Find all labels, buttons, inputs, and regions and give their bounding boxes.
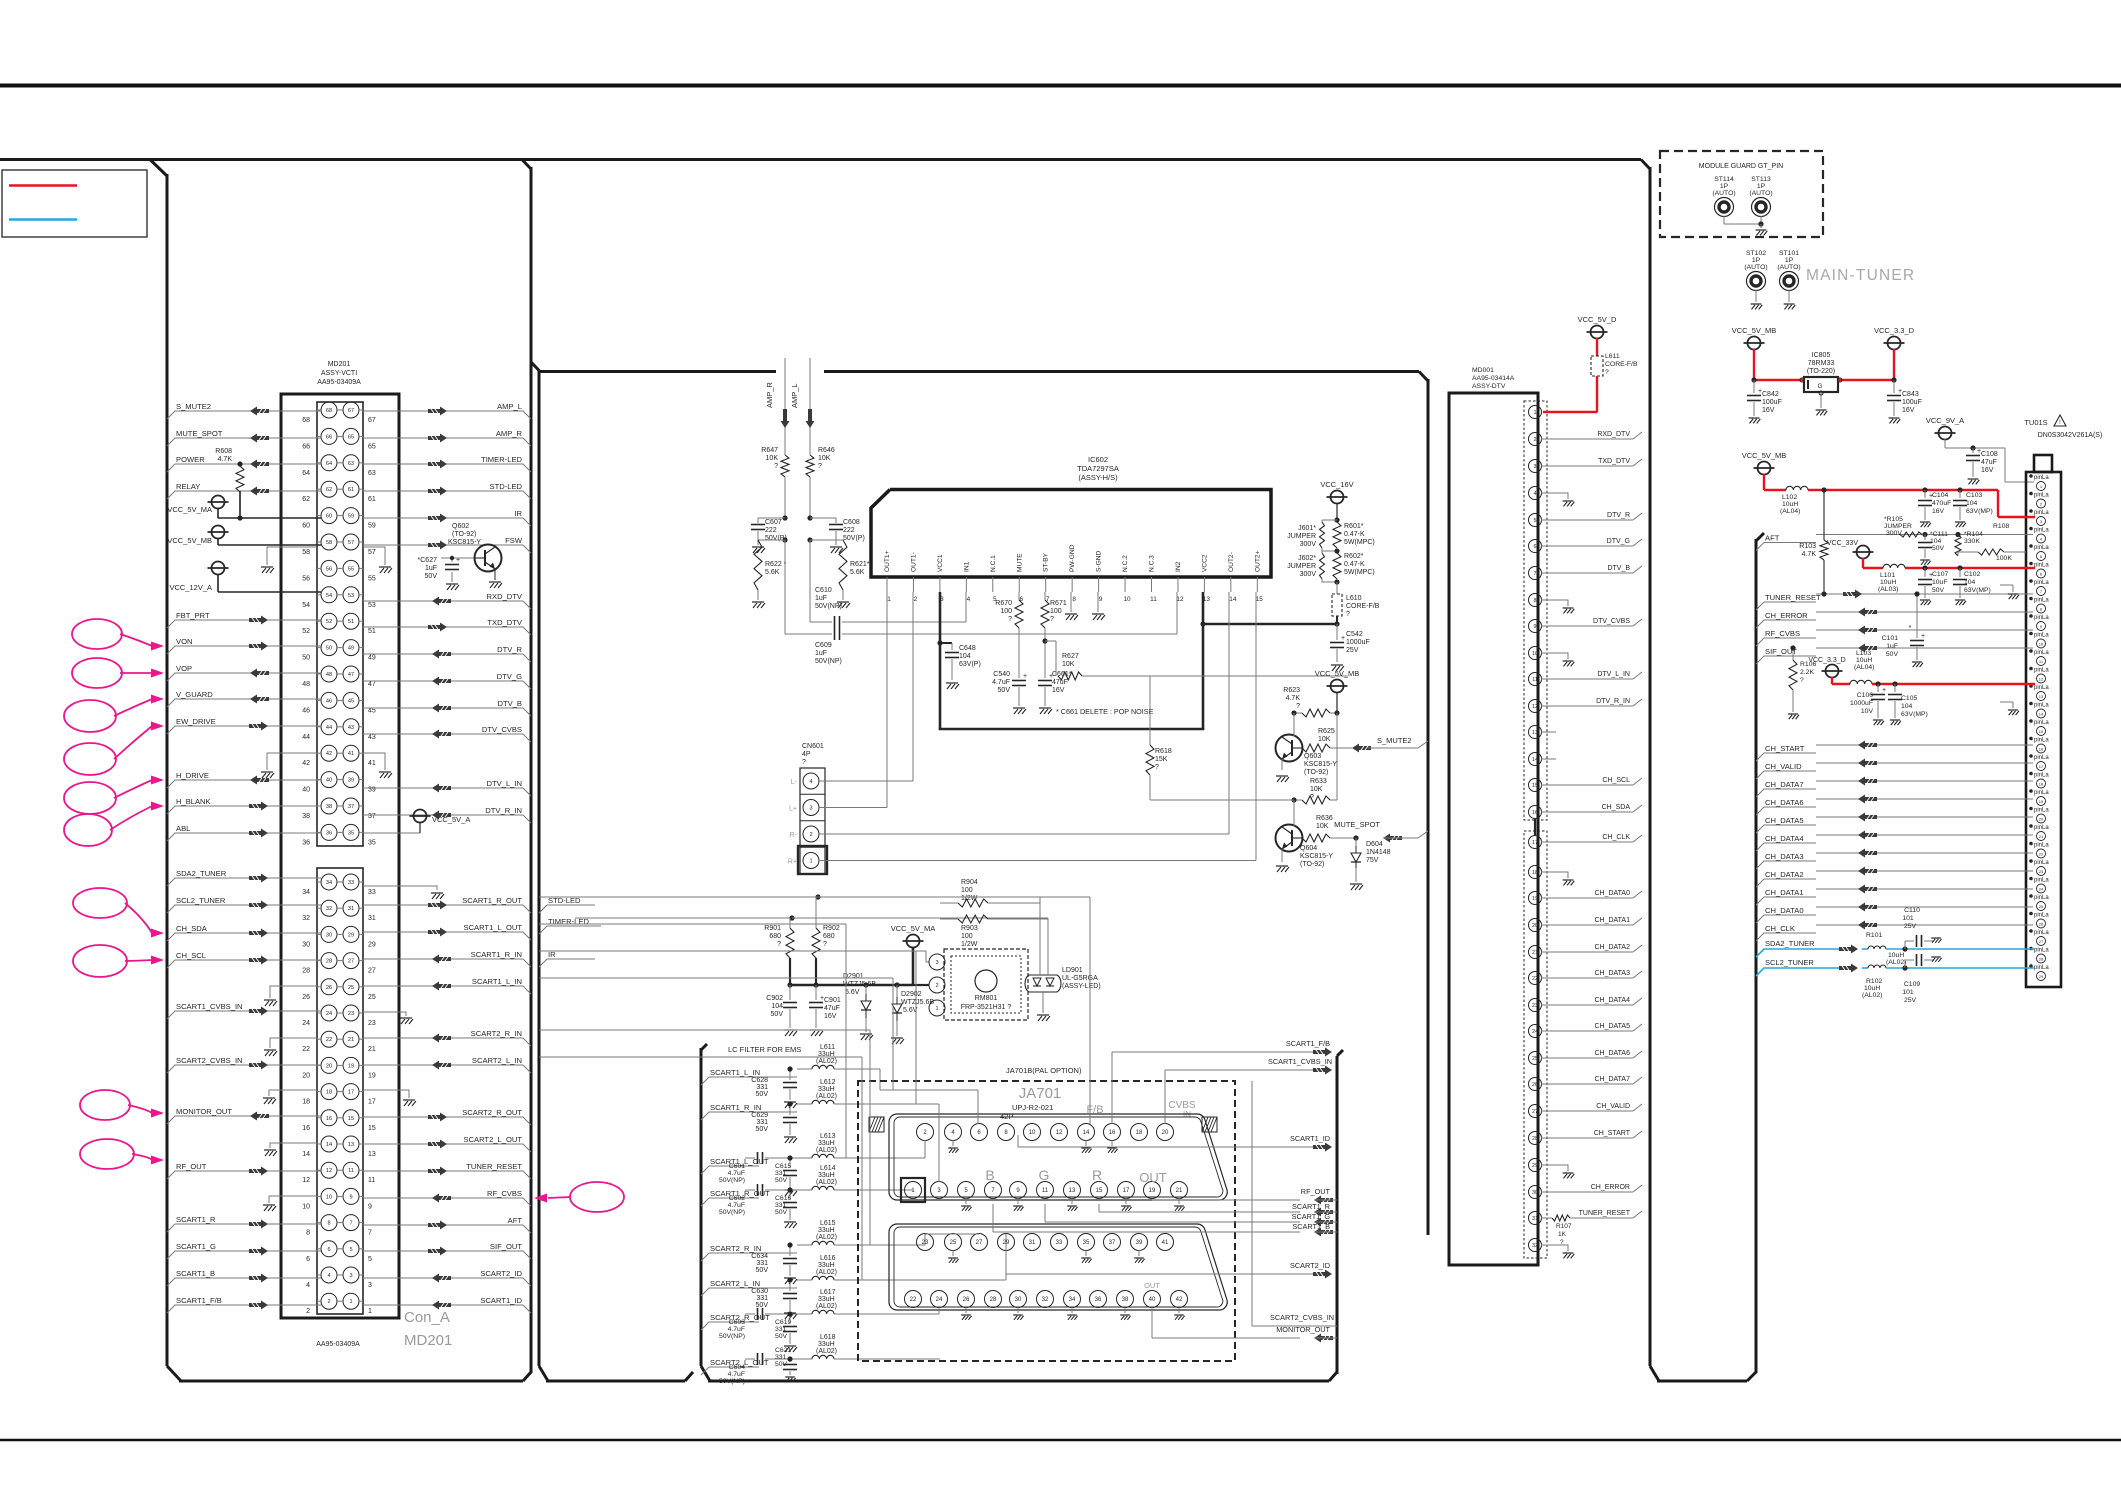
net CH_VALID wire to tuner	[1756, 759, 2033, 780]
JA701 pin 1	[901, 1178, 925, 1202]
net label SCART2_L_IN (MD201 right)	[363, 1056, 531, 1073]
MD201 pins 58/57	[302, 534, 376, 556]
tuner pin 1	[2029, 474, 2049, 490]
MD001 pin 13	[1529, 726, 1557, 739]
tuner pin 17	[2029, 754, 2049, 770]
net label SCART2_CVBS_IN (MD201 left)	[167, 1056, 321, 1073]
svg-text:R902: R902	[823, 925, 840, 932]
svg-text:SCART1_F/B: SCART1_F/B	[176, 1296, 222, 1305]
svg-text:R618: R618	[1155, 748, 1172, 755]
power symbol VCC_5V_D and inductor L611 CORE-F/B (red feed to MD001 pin1)	[1543, 315, 1638, 412]
svg-text:2: 2	[809, 832, 812, 838]
svg-text:VCC_12V_A: VCC_12V_A	[169, 583, 212, 592]
svg-text:OUT1-: OUT1-	[910, 552, 917, 572]
svg-text:DTV_L_IN: DTV_L_IN	[487, 779, 522, 788]
SCART2 connector outline	[889, 1224, 1227, 1310]
svg-text:L611: L611	[1605, 353, 1620, 360]
tuner pin 24	[2029, 877, 2049, 893]
MD201 pins 42/41	[302, 745, 376, 767]
svg-text:4.7K: 4.7K	[218, 456, 233, 463]
svg-text:MUTE: MUTE	[1016, 553, 1023, 572]
right outline vertical (DTV section)	[1641, 160, 1756, 1382]
svg-text:pinLa: pinLa	[2034, 808, 2049, 814]
page bottom border line	[0, 1439, 2121, 1442]
svg-text:VCC_3.3_D: VCC_3.3_D	[1874, 326, 1915, 335]
wire SCART1_B from right	[993, 1204, 1337, 1237]
svg-text:101: 101	[1902, 989, 1914, 996]
svg-text:50V: 50V	[756, 1126, 769, 1133]
svg-text:R602*: R602*	[1344, 553, 1364, 560]
svg-text:(AL02): (AL02)	[816, 1179, 837, 1186]
JA701 pin 6	[971, 1124, 988, 1141]
MD201 pins 2/1	[306, 1293, 372, 1315]
net label SCART1_F/B (MD201 left)	[167, 1296, 321, 1313]
svg-text:MONITOR_OUT: MONITOR_OUT	[176, 1107, 232, 1116]
svg-text:CH_DATA2: CH_DATA2	[1765, 870, 1804, 879]
MD201 pins 38/37	[302, 798, 376, 820]
svg-text:L612: L612	[820, 1079, 836, 1086]
MD001 pin 4	[1529, 487, 1575, 507]
svg-text:ABL: ABL	[176, 824, 190, 833]
svg-text:POWER: POWER	[176, 455, 205, 464]
capacitor C607 222 50V(P)	[751, 515, 788, 553]
net CH_DATA6 wire to tuner	[1756, 795, 2033, 816]
wire SCART1_CVBS_IN to right edge	[1165, 1057, 1332, 1124]
svg-text:4.7uF: 4.7uF	[728, 1371, 745, 1378]
net CH_DATA3 wire to tuner	[1756, 849, 2033, 870]
svg-text:C901: C901	[824, 997, 841, 1004]
wire SCART2_R_IN to JA701 pin27	[925, 1234, 979, 1245]
svg-text:12: 12	[326, 1168, 332, 1174]
capacitor C106 1000uF 10V	[1850, 684, 1886, 725]
net stub AMP_L (vertical)	[790, 358, 815, 455]
svg-text:50V(NP): 50V(NP)	[815, 658, 842, 665]
svg-text:50V: 50V	[425, 573, 438, 580]
svg-text:SDA2_TUNER: SDA2_TUNER	[176, 869, 227, 878]
svg-text:50: 50	[302, 655, 310, 662]
power symbol VCC_5V_MB (IC805 input)	[1732, 326, 1777, 380]
svg-text:VCC_5V_MA: VCC_5V_MA	[167, 505, 212, 514]
svg-text:C609: C609	[815, 642, 832, 649]
wire CN601 L- to IC602 OUT1-	[819, 592, 913, 781]
svg-text:FBT_PRT: FBT_PRT	[176, 611, 210, 620]
svg-text:32: 32	[1532, 1243, 1538, 1249]
capacitor C107 10uF 50V	[1918, 568, 1948, 605]
svg-text:VOP: VOP	[176, 664, 192, 673]
net label DTV_B (MD201 right)	[363, 699, 531, 716]
svg-text:L613: L613	[820, 1133, 836, 1140]
ground at MD201 pin41	[363, 753, 392, 778]
svg-text:64: 64	[302, 470, 310, 477]
svg-text:10K: 10K	[1318, 736, 1331, 743]
net label CH_SCL (MD201 left)	[167, 951, 321, 968]
svg-text:100: 100	[961, 933, 973, 940]
MD001 pin 18	[1529, 866, 1575, 886]
MD001 pin 27 net CH_VALID	[1529, 1103, 1643, 1118]
svg-text:1P: 1P	[1720, 183, 1729, 190]
net SDA2_TUNER blue wire	[1756, 939, 2034, 957]
svg-text:45: 45	[348, 698, 354, 704]
svg-text:42P: 42P	[1000, 1112, 1013, 1121]
svg-text:+: +	[820, 995, 824, 1002]
svg-text:CH_DATA7: CH_DATA7	[1594, 1076, 1630, 1083]
capacitor C648 104 63V(P)	[940, 643, 981, 689]
inductor L611 row SCART1_L_IN	[701, 1044, 880, 1090]
svg-text:11: 11	[1150, 596, 1157, 603]
legend blue wire sample	[9, 218, 77, 221]
JA701 pin 20	[1157, 1124, 1174, 1141]
svg-text:52: 52	[326, 619, 332, 625]
svg-text:AMP_L: AMP_L	[497, 402, 522, 411]
connector MD201 bottom gray title MD201	[404, 1332, 452, 1349]
svg-text:54: 54	[302, 602, 310, 609]
net CH_DATA7 wire to tuner	[1756, 777, 2033, 798]
scart block outline	[701, 1044, 1343, 1381]
svg-text:15: 15	[1256, 596, 1264, 603]
capacitor C616 331 50V	[775, 1187, 797, 1228]
svg-text:CORE-F/B: CORE-F/B	[1605, 361, 1638, 368]
svg-text:(AL02): (AL02)	[1862, 992, 1882, 999]
svg-text:?: ?	[1800, 677, 1804, 684]
svg-text:43: 43	[348, 725, 354, 731]
JA701 pin 23	[917, 1234, 934, 1251]
svg-text:pinLa: pinLa	[2034, 668, 2049, 674]
wire SCART1_R_IN run	[539, 951, 916, 1104]
MD001 pin 12 net DTV_R_IN	[1529, 698, 1643, 713]
svg-text:pinLa: pinLa	[2034, 598, 2049, 604]
svg-text:47uF: 47uF	[824, 1005, 840, 1012]
svg-text:WTZJ5.6B: WTZJ5.6B	[843, 981, 876, 988]
svg-text:IR: IR	[514, 509, 522, 518]
svg-text:20: 20	[302, 1072, 310, 1079]
ground at MD201 pin22	[264, 1038, 317, 1056]
JA701 pin 13	[1064, 1182, 1081, 1211]
svg-text:(AL02): (AL02)	[816, 1234, 837, 1241]
svg-text:19: 19	[368, 1072, 376, 1079]
svg-text:DTV_B: DTV_B	[1607, 565, 1630, 572]
svg-text:C108: C108	[1981, 451, 1998, 458]
MD201 pins 62/61	[302, 481, 376, 503]
capacitor C609 1uF 50V(NP)	[785, 540, 1177, 665]
svg-text:ST113: ST113	[1751, 176, 1771, 183]
svg-text:?: ?	[1605, 369, 1609, 376]
svg-text:25: 25	[348, 985, 354, 991]
tuner pin 26	[2029, 912, 2049, 928]
svg-text:25V: 25V	[1346, 647, 1359, 654]
svg-text:pinLa: pinLa	[2034, 860, 2049, 866]
svg-text:39: 39	[1136, 1240, 1143, 1246]
svg-text:*R104: *R104	[1964, 531, 1983, 538]
net CH_DATA0 wire to tuner	[1756, 903, 2033, 924]
svg-text:D2902: D2902	[901, 991, 922, 998]
svg-text:25: 25	[950, 1240, 957, 1246]
svg-text:R901: R901	[764, 925, 781, 932]
svg-text:222: 222	[843, 527, 855, 534]
LED LD901 UL-G5RGA	[1025, 903, 1101, 1021]
svg-text:38: 38	[1122, 1297, 1129, 1303]
svg-text:pinLa: pinLa	[2034, 738, 2049, 744]
svg-text:AA95-03409A: AA95-03409A	[316, 1341, 360, 1348]
svg-text:57: 57	[348, 540, 354, 546]
legend red wire sample	[9, 184, 77, 187]
power symbol VCC_16V	[1320, 480, 1353, 523]
svg-text:28: 28	[1532, 1136, 1538, 1142]
svg-text:64: 64	[326, 461, 332, 467]
svg-text:C540: C540	[993, 671, 1010, 678]
svg-text:10K: 10K	[818, 455, 831, 462]
MD001 pin 22 net CH_DATA3	[1529, 970, 1643, 985]
svg-text:27: 27	[1532, 1109, 1538, 1115]
svg-text:VCC_5V_MB: VCC_5V_MB	[167, 536, 212, 545]
svg-text:CH_SDA: CH_SDA	[176, 924, 208, 933]
tuner pin 5	[2029, 544, 2049, 560]
JA701 pin 39	[1131, 1234, 1148, 1263]
svg-text:63V(P): 63V(P)	[959, 661, 981, 668]
capacitor C608 222 50V(P)	[807, 515, 864, 553]
svg-text:C630: C630	[751, 1288, 768, 1295]
svg-text:15: 15	[2039, 729, 2044, 734]
svg-text:MONITOR_OUT: MONITOR_OUT	[1276, 1325, 1330, 1334]
svg-text:37: 37	[1109, 1240, 1116, 1246]
svg-text:pinLa: pinLa	[2034, 755, 2049, 761]
net label SCART1_B (MD201 left)	[167, 1269, 321, 1286]
svg-text:MODULE GUARD GT_PIN: MODULE GUARD GT_PIN	[1699, 163, 1783, 170]
svg-text:SCART1_R: SCART1_R	[1292, 1202, 1330, 1211]
MD201 pins 34/33	[302, 874, 376, 896]
svg-text:ASSY-VCTI: ASSY-VCTI	[321, 370, 357, 377]
resistor R621 5.6K	[807, 537, 869, 608]
svg-text:TUNER_RESET: TUNER_RESET	[466, 1162, 522, 1171]
wire IR to remote module	[539, 950, 929, 967]
svg-text:(AL03): (AL03)	[1878, 586, 1898, 593]
svg-text:R646: R646	[818, 447, 835, 454]
svg-text:H_BLANK: H_BLANK	[176, 797, 211, 806]
svg-text:2: 2	[914, 596, 918, 603]
svg-text:14: 14	[1229, 596, 1237, 603]
tuner pin 21	[2029, 824, 2049, 840]
magenta callout ellipse -> RF_CVBS	[534, 1182, 624, 1212]
MD001 pin 31 net TUNER_RESET	[1529, 1210, 1643, 1246]
svg-text:R101: R101	[1866, 932, 1882, 939]
capacitor C842 100uF 16V	[1747, 377, 1782, 423]
svg-text:5.6V: 5.6V	[845, 989, 860, 996]
svg-text:ST101: ST101	[1779, 250, 1799, 257]
svg-text:37: 37	[348, 804, 354, 810]
hatch mark right	[1202, 1117, 1217, 1132]
svg-text:62: 62	[302, 496, 310, 503]
svg-text:33: 33	[1056, 1240, 1063, 1246]
svg-text:20: 20	[326, 1063, 332, 1069]
svg-text:8: 8	[327, 1221, 330, 1227]
svg-text:50V: 50V	[1932, 587, 1945, 594]
svg-text:1: 1	[1534, 410, 1537, 416]
svg-text:Q602: Q602	[452, 523, 469, 530]
svg-text:pinLa: pinLa	[2034, 895, 2049, 901]
net label VON (MD201 left)	[167, 637, 321, 654]
net label DTV_G (MD201 right)	[363, 672, 531, 689]
svg-text:*: *	[1909, 625, 1912, 632]
resistor R901 680	[764, 918, 794, 985]
label LC FILTER FOR EMS	[728, 1045, 801, 1054]
svg-text:4: 4	[327, 1273, 330, 1279]
svg-text:?: ?	[777, 941, 781, 948]
svg-text:KSC815-Y: KSC815-Y	[1304, 761, 1337, 768]
svg-text:54: 54	[326, 593, 332, 599]
net label DTV_R (MD201 right)	[363, 645, 531, 662]
svg-text:R670: R670	[995, 600, 1012, 607]
svg-text:?: ?	[818, 463, 822, 470]
svg-text:R627: R627	[1062, 653, 1079, 660]
svg-text:pinLa: pinLa	[2034, 475, 2049, 481]
MD201 pins 52/51	[302, 613, 376, 635]
tuner pin 9	[2029, 614, 2049, 630]
svg-text:CH_DATA4: CH_DATA4	[1594, 997, 1630, 1004]
svg-text:1000uF: 1000uF	[1346, 639, 1370, 646]
svg-text:21: 21	[368, 1046, 376, 1053]
svg-text:21: 21	[348, 1037, 354, 1043]
test pin ST113 1P (AUTO)	[1749, 176, 1772, 235]
svg-text:16V: 16V	[1981, 467, 1994, 474]
svg-text:AMP_L: AMP_L	[790, 383, 799, 408]
svg-text:(AUTO): (AUTO)	[1712, 190, 1735, 197]
svg-text:MAIN-TUNER: MAIN-TUNER	[1806, 267, 1915, 284]
tuner pin 2	[2029, 492, 2049, 508]
svg-text:15: 15	[1532, 783, 1538, 789]
svg-text:C105: C105	[1901, 695, 1917, 702]
svg-text:25V: 25V	[1904, 923, 1917, 930]
inductor L616 row SCART2_L_IN	[701, 1255, 952, 1296]
power symbol VCC_5V_MB (audio)	[1315, 669, 1360, 713]
svg-text:SCART2_R_IN: SCART2_R_IN	[710, 1244, 761, 1253]
svg-text:L610: L610	[1346, 595, 1362, 602]
svg-text:TUNER_RESET: TUNER_RESET	[1765, 593, 1821, 602]
net CH_DATA2 wire to tuner	[1756, 867, 2033, 888]
svg-text:R601*: R601*	[1344, 523, 1364, 530]
svg-text:*C111: *C111	[1930, 531, 1948, 538]
net label H_DRIVE (MD201 left)	[167, 771, 321, 788]
MD201 pins 24/23	[302, 1005, 376, 1027]
jumper R105 JUMPER 300V on AFT	[1884, 516, 1922, 537]
capacitor C105 104 63V(MP)	[1888, 684, 1928, 725]
wire CN601 R+ to IC602 OUT2+	[819, 592, 1256, 861]
svg-text:C106: C106	[1857, 692, 1873, 699]
resistor R670 100	[995, 592, 1023, 628]
svg-text:12: 12	[1532, 704, 1538, 710]
svg-text:331: 331	[756, 1295, 768, 1302]
svg-text:DTV_G: DTV_G	[1607, 538, 1630, 545]
MD001 pin 21 net CH_DATA2	[1529, 944, 1643, 959]
svg-text:5W(MPC): 5W(MPC)	[1344, 569, 1375, 576]
svg-text:(AUTO): (AUTO)	[1749, 190, 1772, 197]
capacitor C634 331 50V	[751, 1242, 797, 1284]
svg-text:41: 41	[368, 760, 376, 767]
net label STD-LED (MD201 right)	[363, 482, 531, 499]
svg-text:32: 32	[1042, 1297, 1049, 1303]
svg-text:VCC_5V_D: VCC_5V_D	[1578, 315, 1617, 324]
wire STD-LED to LED driver	[539, 894, 1040, 913]
svg-text:L103: L103	[1856, 650, 1871, 657]
svg-text:53: 53	[348, 593, 354, 599]
wire SCART1_ID to right edge	[1018, 1134, 1332, 1152]
svg-text:C621: C621	[775, 1347, 791, 1354]
svg-text:+: +	[1882, 687, 1886, 694]
svg-text:(ASSY-LED): (ASSY-LED)	[1062, 983, 1101, 990]
svg-text:11: 11	[1532, 677, 1538, 683]
svg-text:L102: L102	[1782, 494, 1797, 501]
capacitor C102 104 63V(MP)	[1953, 568, 1991, 605]
wire MONITOR_OUT from right	[1152, 1307, 1337, 1343]
resistor R902 680	[812, 897, 840, 985]
JA701 pin 9	[1010, 1182, 1027, 1211]
tuner pin 19	[2029, 789, 2049, 805]
svg-text:35: 35	[368, 839, 376, 846]
svg-text:C109: C109	[1904, 981, 1920, 988]
net CH_DATA4 wire to tuner	[1756, 831, 2033, 852]
net CH_DATA5 wire to tuner	[1756, 813, 2033, 834]
svg-text:29: 29	[368, 941, 376, 948]
svg-text:SCL2_TUNER: SCL2_TUNER	[1765, 958, 1814, 967]
magenta callout ellipse -> RF_OUT	[80, 1139, 164, 1169]
JA701 pin 38	[1117, 1291, 1134, 1320]
svg-text:Con_A: Con_A	[404, 1309, 450, 1326]
tuner pin 25	[2029, 894, 2049, 910]
svg-text:18: 18	[1136, 1130, 1143, 1136]
svg-text:H_DRIVE: H_DRIVE	[176, 771, 209, 780]
tuner pin 10	[2029, 632, 2049, 648]
svg-text:58: 58	[302, 549, 310, 556]
inductor L615 row SCART2_R_IN	[701, 1220, 925, 1261]
svg-text:CH_SCL: CH_SCL	[176, 951, 206, 960]
MD201 pins 66/65	[302, 428, 376, 450]
wire RF_OUT from right	[1152, 1187, 1337, 1205]
svg-text:25: 25	[1532, 1056, 1538, 1062]
svg-text:36: 36	[326, 830, 332, 836]
svg-text:42: 42	[326, 751, 332, 757]
resistor R647 10K	[761, 447, 789, 518]
svg-text:C102: C102	[1964, 571, 1980, 578]
svg-text:100uF: 100uF	[1762, 399, 1782, 406]
svg-text:61: 61	[348, 487, 354, 493]
svg-text:ST-BY: ST-BY	[1043, 552, 1050, 572]
regulator IC805 78RM33 (TO-220)	[1754, 352, 1894, 415]
svg-text:pinLa: pinLa	[2034, 843, 2049, 849]
svg-text:3: 3	[368, 1282, 372, 1289]
net label SDA2_TUNER (MD201 left)	[167, 869, 321, 886]
svg-text:1P: 1P	[1757, 183, 1766, 190]
page top border line	[0, 84, 2121, 88]
svg-text:J601*: J601*	[1298, 525, 1316, 532]
svg-text:331: 331	[756, 1084, 768, 1091]
svg-text:N.C.1: N.C.1	[990, 555, 997, 572]
svg-text:56: 56	[302, 575, 310, 582]
MD001 pin 9 net DTV_CVBS	[1529, 618, 1643, 633]
module guard dashed box	[1660, 151, 1823, 237]
svg-text:104: 104	[959, 653, 971, 660]
svg-text:OUT: OUT	[1144, 1281, 1160, 1290]
svg-text:OUT2-: OUT2-	[1228, 552, 1235, 572]
svg-text:?: ?	[1296, 703, 1300, 710]
transistor Q604 KSC815-Y	[1276, 800, 1334, 872]
JA701 pin 7	[985, 1182, 1002, 1199]
net label SCART1_CVBS_IN (MD201 left)	[167, 1002, 321, 1019]
svg-text:19: 19	[1532, 896, 1538, 902]
net label SCART1_R_OUT (MD201 right)	[363, 896, 531, 913]
svg-text:(TO-220): (TO-220)	[1807, 368, 1835, 375]
svg-text:TU01S: TU01S	[2024, 418, 2047, 427]
svg-text:VCC2: VCC2	[1201, 554, 1208, 572]
svg-text:?: ?	[1008, 616, 1012, 623]
tuner pin 20	[2029, 807, 2049, 823]
